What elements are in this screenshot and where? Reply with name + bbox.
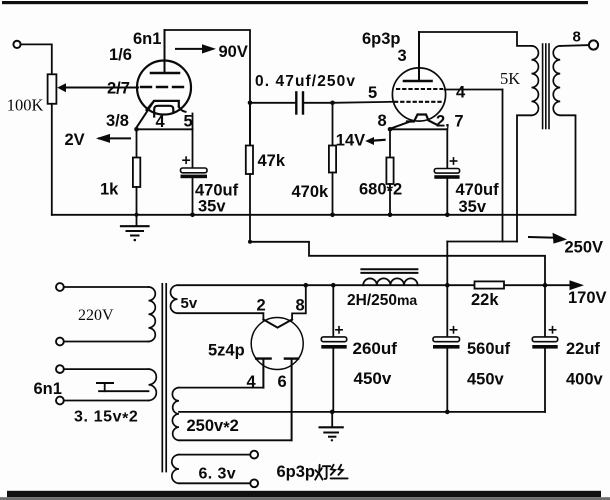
5v rectifier winding <box>171 285 178 313</box>
svg-text:5z4p: 5z4p <box>208 342 245 360</box>
svg-text:260uf: 260uf <box>353 339 398 358</box>
svg-text:2V: 2V <box>65 131 85 149</box>
svg-text:220V: 220V <box>78 307 114 324</box>
node B+ 250V feed <box>447 241 517 243</box>
6n1 grid (dashed) <box>141 86 187 88</box>
svg-text:5K: 5K <box>500 69 520 88</box>
wire 6p3p plate to OPT <box>419 32 532 46</box>
svg-text:6. 3v: 6. 3v <box>199 466 237 483</box>
wire plate to top <box>165 30 251 103</box>
cathode lead 3/8 <box>137 101 155 128</box>
svg-text:6n1: 6n1 <box>133 30 161 48</box>
svg-text:3/8: 3/8 <box>106 112 129 130</box>
output transformer secondary <box>553 46 560 115</box>
ground rail (top section) <box>52 214 576 216</box>
svg-text:4: 4 <box>156 113 166 131</box>
capacitor 560uf 450v <box>446 285 448 337</box>
2V arrow <box>99 137 130 139</box>
6p3p screen grid g2 (dotted) <box>397 88 442 90</box>
svg-text:1/6: 1/6 <box>109 46 132 64</box>
wire secondary top to terminal 8 <box>560 44 589 47</box>
wiper arrow to grid 2/7 <box>57 83 66 92</box>
svg-text:5: 5 <box>184 113 193 131</box>
wire 5v to pin 2 <box>178 313 264 320</box>
svg-text:250V: 250V <box>565 239 604 257</box>
svg-text:14V: 14V <box>336 131 365 149</box>
bottom border bar <box>7 491 601 497</box>
svg-text:5v: 5v <box>181 295 198 312</box>
svg-text:47k: 47k <box>258 152 286 170</box>
resistor 22k <box>475 281 505 288</box>
node plate/cap junction <box>248 101 253 106</box>
wire cathode branch <box>137 128 193 130</box>
6.3v winding <box>172 455 179 484</box>
screen wire to B+ <box>445 89 503 91</box>
capacitor 0.47uf/250v coupling <box>250 102 295 104</box>
PSU ground symbol <box>331 412 333 427</box>
cathode node <box>134 127 139 132</box>
svg-text:8: 8 <box>296 297 305 315</box>
6n1 plate <box>151 72 179 75</box>
svg-text:5: 5 <box>368 84 377 102</box>
svg-text:170V: 170V <box>568 289 607 307</box>
svg-text:2: 2 <box>257 297 266 315</box>
svg-text:22k: 22k <box>471 291 499 309</box>
6.3v terminals <box>250 451 258 459</box>
svg-text:680*2: 680*2 <box>359 181 402 201</box>
capacitor 22uf 400v <box>544 285 546 337</box>
5z4p filament <box>263 320 292 328</box>
pin 5 stub <box>192 114 194 130</box>
resistor 470k (grid leak) <box>332 103 334 146</box>
OPT core <box>542 44 544 129</box>
wire OPT primary bottom down <box>517 115 532 241</box>
svg-text:400v: 400v <box>566 371 604 389</box>
CJK 灯丝 (6p3p heater) drawn strokes <box>315 465 347 480</box>
svg-text:450v: 450v <box>354 369 392 388</box>
resistor 1k <box>136 129 138 157</box>
PSU B+ line <box>178 284 475 286</box>
wire input to pot <box>21 44 52 74</box>
svg-text:6p3p: 6p3p <box>277 463 316 481</box>
svg-text:90V: 90V <box>219 43 248 61</box>
220V primary winding <box>149 287 156 342</box>
svg-text:35v: 35v <box>198 198 226 216</box>
power transformer core <box>161 284 163 472</box>
PSU ground rail <box>179 411 545 413</box>
wire grid to 6p3p <box>333 102 395 103</box>
svg-text:35v: 35v <box>459 198 487 216</box>
6n1 filament winding 3.15v*2 <box>149 369 157 400</box>
svg-text:3: 3 <box>398 47 407 65</box>
terminal 220V bottom <box>56 338 64 346</box>
svg-text:6p3p: 6p3p <box>362 30 401 48</box>
svg-text:450v: 450v <box>467 371 505 389</box>
svg-text:250v*2: 250v*2 <box>187 417 239 437</box>
90V arrow <box>176 48 203 50</box>
svg-text:0. 47uf/250v: 0. 47uf/250v <box>255 73 356 90</box>
svg-text:6n1: 6n1 <box>34 380 62 398</box>
rectifier 5z4p envelope <box>251 318 303 370</box>
top border bar <box>2 1 588 4</box>
170V arrow <box>570 280 585 290</box>
6p3p cathode <box>407 115 437 125</box>
6p3p control grid g1 (dotted) <box>395 101 442 103</box>
svg-text:2/7: 2/7 <box>107 80 130 98</box>
resistor 680*2 (cathode) <box>389 129 391 157</box>
resistor 47k (plate load) <box>249 103 251 146</box>
wire pot to ground rail <box>51 104 53 215</box>
svg-text:2, 7: 2, 7 <box>436 113 464 131</box>
svg-text:6: 6 <box>278 373 287 391</box>
svg-text:8: 8 <box>378 112 387 130</box>
capacitor 260uf 450v <box>332 285 334 337</box>
svg-text:22uf: 22uf <box>566 340 600 358</box>
wire secondary bottom to ground rail <box>560 115 575 215</box>
5z4p anode pin 6 <box>285 357 298 359</box>
wire 47k to 170V line <box>250 242 545 285</box>
svg-text:4: 4 <box>456 84 466 102</box>
potentiometer 100K <box>48 74 57 104</box>
speaker terminal 8 <box>589 40 598 49</box>
svg-text:8: 8 <box>573 29 581 46</box>
svg-text:2H/250ma: 2H/250ma <box>347 292 417 309</box>
junction dots on B+ line <box>304 283 309 288</box>
wire pin 8 to B+ <box>292 285 306 320</box>
svg-text:560uf: 560uf <box>467 340 511 358</box>
14V arrow <box>372 139 385 142</box>
250V annotation arrow <box>529 236 560 239</box>
terminal 220V top <box>56 283 64 291</box>
choke 2H/250ma <box>361 268 417 270</box>
filament center tap <box>99 390 149 392</box>
svg-text:470k: 470k <box>292 183 330 201</box>
HV winding 250v*2 <box>172 388 179 441</box>
svg-text:100K: 100K <box>7 96 44 115</box>
capacitor 470uf 35v (6n1 cathode) <box>192 129 194 168</box>
ground symbol <box>136 215 138 226</box>
svg-text:1k: 1k <box>100 181 119 199</box>
capacitor 470uf 35v (6p3p cathode) <box>390 128 447 130</box>
output transformer primary 5K <box>532 46 539 115</box>
input terminal <box>13 41 20 48</box>
6n1 cathode <box>147 101 179 110</box>
tube 6n1 envelope <box>137 61 191 115</box>
6n1 heater <box>154 106 173 117</box>
svg-text:3. 15v*2: 3. 15v*2 <box>74 409 138 428</box>
svg-text:4: 4 <box>247 373 257 391</box>
6p3p plate <box>404 80 432 83</box>
tube 6p3p envelope <box>392 68 445 121</box>
5z4p anode pin 4 <box>256 357 270 359</box>
svg-text:470uf: 470uf <box>456 181 500 199</box>
